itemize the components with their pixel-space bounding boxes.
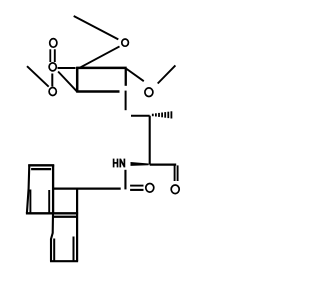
carbonate oxygen O5 label: [49, 88, 56, 96]
sugar ring top edge: [76, 67, 127, 70]
bond glycosidic O to beta carbon: [131, 115, 150, 117]
Fmoc chain C9-CH2-O horizontal: [53, 188, 121, 190]
fluorene upper ring left edge: [27, 165, 29, 214]
carbonate oxygen O4 label: [49, 63, 56, 71]
fluorene lower ring left inner aromatic line: [53, 239, 55, 262]
methyl of right OMe: [158, 65, 176, 83]
acid C=O double bond: [174, 165, 176, 181]
oxygen O1 ring-top OMe label: [122, 39, 129, 46]
fluorene upper ring top edge: [28, 164, 54, 166]
fluorene upper ring top inner aromatic line: [31, 168, 51, 170]
sugar ring right edge upper segment: [125, 68, 127, 86]
bond alpha carbon to acid carbon: [150, 163, 177, 165]
fluorene lower ring bottom edge: [50, 260, 78, 262]
bond O1 to ring top-left carbon: [79, 46, 120, 68]
fluorene upper ring right inner aromatic line: [48, 190, 50, 213]
fluorene C9 vertical and lower ring right edge: [76, 189, 78, 262]
methyl of ring-top OMe: [74, 16, 119, 39]
bond beta carbon to alpha carbon: [149, 116, 151, 165]
bond O4 to O5: [51, 74, 53, 87]
fluorene upper ring right edge: [52, 165, 54, 214]
fluorene lower ring right inner aromatic line: [73, 237, 75, 262]
wedge bond N to alpha carbon: [131, 162, 149, 166]
fluorene upper ring left inner aromatic line: [29, 190, 31, 214]
bond O4 to ring top-left: [58, 67, 76, 69]
HN label: [114, 159, 125, 168]
carbonate C=O double bond: [49, 49, 51, 62]
sugar ring left edge: [76, 67, 79, 92]
oxygen O2 right OMe label: [145, 88, 153, 97]
hashed wedge methyl on beta carbon: [153, 111, 172, 118]
carbamate oxygen O7 label: [146, 184, 154, 193]
acid oxygen O6 label: [171, 185, 179, 194]
fluorene lower ring top inner aromatic line: [54, 216, 76, 218]
glycosidic bond vertical below ring: [125, 91, 127, 111]
sugar ring bottom edge: [76, 90, 119, 93]
bond N to carbamate carbon: [124, 170, 126, 190]
fluorene lower ring left edge: [51, 213, 53, 261]
bond ring to OMe oxygen O2: [126, 69, 143, 81]
bond O4 to ring bottom-left: [58, 72, 77, 92]
methyl on O5: [27, 66, 49, 87]
fluorene long middle horizontal: [26, 212, 78, 214]
carbamate C=O double bond: [130, 185, 143, 187]
carbonyl oxygen O3 label: [50, 39, 57, 48]
